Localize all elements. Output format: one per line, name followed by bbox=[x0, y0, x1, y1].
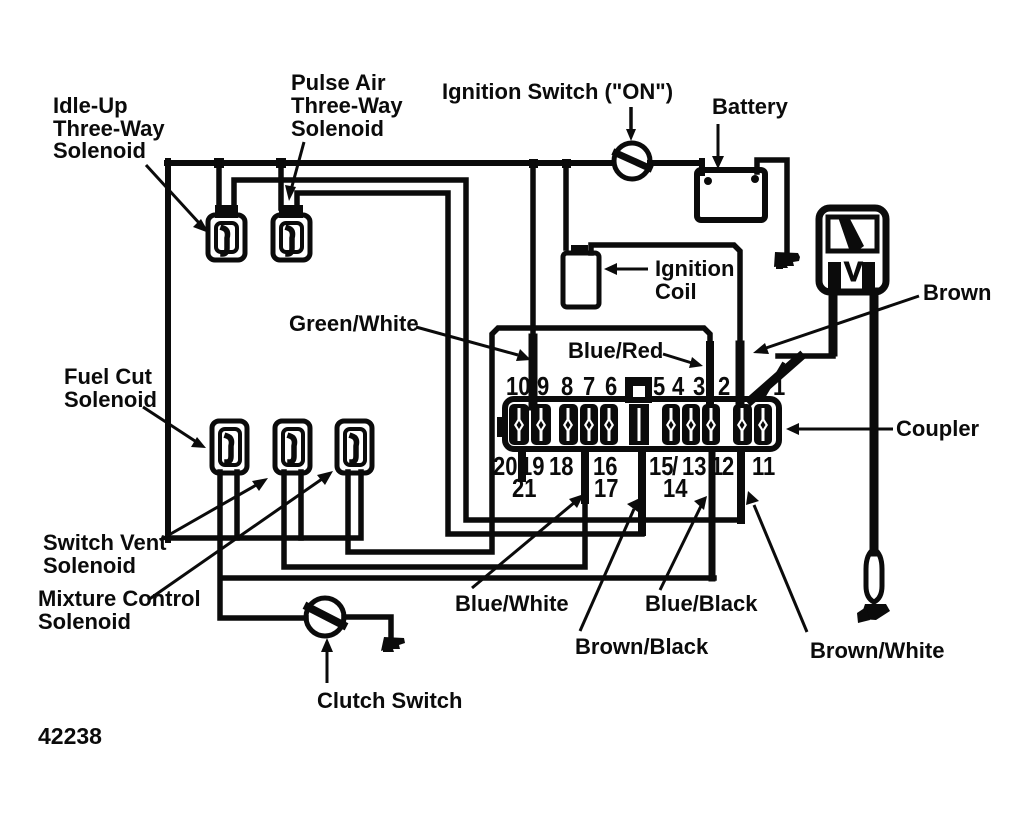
svg-text:Three-Way: Three-Way bbox=[291, 93, 403, 118]
svg-text:Solenoid: Solenoid bbox=[53, 138, 146, 163]
wire: top supply rail bbox=[167, 160, 613, 166]
svg-text:V: V bbox=[844, 256, 863, 287]
wire: battery negative to ground bbox=[757, 160, 787, 251]
svg-text:10: 10 bbox=[506, 372, 530, 401]
pin slits (white details) bbox=[514, 408, 768, 441]
pin 5 bbox=[662, 404, 680, 445]
svg-text:Ignition: Ignition bbox=[655, 256, 734, 281]
arrow: Ignition Coil label bbox=[614, 268, 648, 271]
wire: green/white from rail to coupler pin 9 bbox=[530, 163, 536, 404]
coupler left tab bbox=[497, 417, 507, 437]
arrow: Blue/Red label bbox=[663, 354, 692, 363]
pin 2 bbox=[733, 404, 752, 445]
svg-text:7: 7 bbox=[583, 372, 595, 401]
svg-text:Battery: Battery bbox=[712, 94, 789, 119]
svg-text:14: 14 bbox=[663, 474, 688, 503]
svg-text:Brown: Brown bbox=[923, 280, 991, 305]
arrow: Brown/Black label bbox=[580, 509, 634, 631]
svg-text:Blue/Red: Blue/Red bbox=[568, 338, 663, 363]
ground: clutch switch bbox=[381, 637, 405, 652]
pin 6 bbox=[600, 404, 618, 445]
pin 3 bbox=[702, 404, 720, 445]
wire: left rail vertical bbox=[165, 161, 171, 540]
svg-text:6: 6 bbox=[605, 372, 617, 401]
wire: switch-vent right terminal bbox=[298, 472, 304, 538]
svg-text:Ignition Switch ("ON"): Ignition Switch ("ON") bbox=[442, 79, 673, 104]
pin 8 bbox=[559, 404, 578, 445]
svg-text:18: 18 bbox=[549, 452, 573, 481]
pin 10 bbox=[509, 404, 529, 445]
svg-text:Switch Vent: Switch Vent bbox=[43, 530, 167, 555]
svg-text:Green/White: Green/White bbox=[289, 311, 419, 336]
arrow: Idle-Up label bbox=[146, 165, 200, 224]
wire: pulse-air solenoid terminal 1 bbox=[278, 163, 284, 208]
svg-text:Pulse Air: Pulse Air bbox=[291, 70, 386, 95]
svg-text:Clutch Switch: Clutch Switch bbox=[317, 688, 462, 713]
svg-text:9: 9 bbox=[537, 372, 549, 401]
wire: fuel-cut left terminal down to clutch switch bbox=[220, 472, 306, 618]
wire: clutch switch to ground bbox=[344, 617, 391, 640]
node: junction idle-up t1 bbox=[214, 158, 224, 168]
clutch switch SW2 bbox=[306, 598, 344, 636]
arrow: Coupler label bbox=[796, 428, 893, 431]
wire: voltmeter left lead to coupler pin 1 (net Brown) bbox=[829, 292, 838, 352]
arrow: Blue/White label bbox=[472, 502, 575, 588]
wire: blue/red box - pin 3 to mixture control solenoid bbox=[348, 328, 710, 552]
wire: common feed to solenoid right terminals (left rail bottom) bbox=[168, 472, 361, 538]
svg-text:17: 17 bbox=[594, 474, 618, 503]
wire marking slash on brown wire bbox=[763, 364, 783, 398]
wire: coil to coupler pin 2 (net Blue/Red upper) bbox=[591, 245, 740, 408]
svg-text:Blue/Black: Blue/Black bbox=[645, 591, 758, 616]
wire: pin 13 to clutch switch branch bbox=[222, 575, 714, 581]
wire: rail from ignition switch to battery bbox=[650, 160, 702, 166]
wire: pin 16 stub (net Brown/Black) bbox=[638, 450, 646, 532]
svg-text:11: 11 bbox=[752, 452, 775, 481]
arrow: Battery label bbox=[717, 124, 720, 160]
solenoid L2: Pulse Air Three-Way Solenoid bbox=[273, 205, 310, 260]
arrow: Clutch Switch label bbox=[326, 648, 329, 683]
wire: voltmeter right lead (probe) bbox=[870, 292, 879, 552]
coupler key tab top bbox=[625, 377, 652, 403]
pin 1 bbox=[754, 404, 772, 445]
svg-text:Idle-Up: Idle-Up bbox=[53, 93, 128, 118]
svg-text:Coil: Coil bbox=[655, 279, 697, 304]
wire: switch vent solenoid to coupler pin 17 (net Blue/White) bbox=[284, 452, 585, 567]
svg-text:Solenoid: Solenoid bbox=[43, 553, 136, 578]
ground: battery negative bbox=[774, 252, 800, 269]
wire: pulse-air solenoid terminal 2 to net Brown/Black bbox=[297, 193, 642, 534]
svg-text:Mixture Control: Mixture Control bbox=[38, 586, 201, 611]
pin numbers top row bbox=[506, 372, 785, 401]
svg-text:2: 2 bbox=[718, 372, 730, 401]
svg-text:2: 2 bbox=[722, 452, 734, 481]
arrow: Green/White label bbox=[416, 327, 518, 355]
svg-text:Solenoid: Solenoid bbox=[64, 387, 157, 412]
node: junction pulse-air t1 bbox=[276, 158, 286, 168]
arrow: Switch Vent label bbox=[160, 484, 258, 540]
svg-text:42238: 42238 bbox=[38, 723, 102, 749]
pin 7 bbox=[580, 404, 598, 445]
arrow: Brown label bbox=[766, 296, 919, 348]
pin 4 bbox=[682, 404, 700, 445]
wire: ignition coil feed bbox=[563, 163, 569, 248]
wire: fuel-cut right terminal bbox=[234, 472, 240, 538]
ignition coil T1 bbox=[563, 245, 599, 307]
node: junction green/white bbox=[529, 159, 538, 168]
arrow: Pulse Air label bbox=[291, 142, 304, 190]
svg-text:Brown/Black: Brown/Black bbox=[575, 634, 709, 659]
svg-text:21: 21 bbox=[512, 474, 536, 503]
svg-text:8: 8 bbox=[561, 372, 573, 401]
fuel cut solenoid L3 bbox=[212, 421, 247, 473]
arrow: Fuel Cut label bbox=[143, 407, 195, 441]
solenoid L1: Idle-Up Three-Way Solenoid bbox=[208, 205, 245, 260]
svg-text:4: 4 bbox=[672, 372, 685, 401]
wire: pin 12 stub (net Brown/White) bbox=[737, 452, 745, 520]
svg-text:Coupler: Coupler bbox=[896, 416, 980, 441]
arrow: Brown/White label bbox=[754, 505, 807, 632]
pin numbers bottom row 1 bbox=[493, 452, 775, 481]
arrow: Ignition Switch label bbox=[629, 107, 633, 133]
svg-text:3: 3 bbox=[693, 372, 705, 401]
ignition switch SW1 (circle with slash) bbox=[614, 143, 650, 179]
battery B1 bbox=[697, 170, 765, 220]
voltmeter M1 bbox=[819, 208, 886, 292]
wire: pin 19 stub bbox=[518, 450, 526, 478]
svg-text:Fuel Cut: Fuel Cut bbox=[64, 364, 153, 389]
pin numbers bottom row 2 bbox=[512, 474, 688, 503]
key column bbox=[629, 404, 649, 445]
arrow: Mixture Control label bbox=[148, 479, 322, 600]
svg-text:5: 5 bbox=[653, 372, 665, 401]
coupler J1: outer shell bbox=[505, 399, 779, 449]
svg-text:Blue/White: Blue/White bbox=[455, 591, 569, 616]
switch vent solenoid L4 bbox=[275, 421, 310, 473]
node: junction coil feed bbox=[562, 159, 571, 168]
wire: idle-up solenoid terminal 1 bbox=[216, 163, 222, 208]
coupler pins (cavities) bbox=[509, 404, 772, 445]
svg-text:Brown/White: Brown/White bbox=[810, 638, 944, 663]
svg-text:Solenoid: Solenoid bbox=[38, 609, 131, 634]
arrow: Blue/Black label bbox=[660, 506, 701, 590]
svg-text:Solenoid: Solenoid bbox=[291, 116, 384, 141]
probe tip bbox=[866, 549, 882, 602]
pin 9 bbox=[531, 404, 551, 445]
svg-text:1: 1 bbox=[773, 372, 785, 401]
wire: idle-up solenoid terminal 2 to net Brown/White bbox=[234, 180, 741, 520]
mixture control solenoid L5 bbox=[337, 421, 372, 473]
